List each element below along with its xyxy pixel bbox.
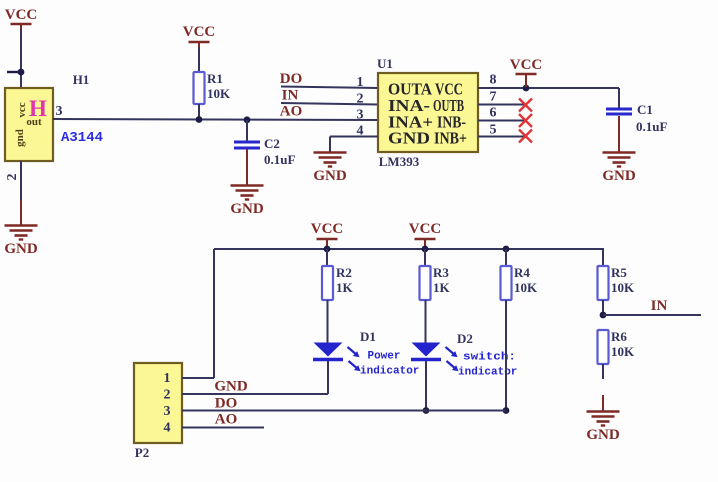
svg-text:indicator: indicator	[360, 366, 419, 378]
svg-text:LM393: LM393	[379, 154, 420, 169]
svg-text:VCC: VCC	[311, 221, 344, 237]
svg-text:8: 8	[490, 73, 497, 88]
svg-text:3: 3	[164, 404, 171, 419]
svg-text:10K: 10K	[611, 280, 635, 295]
svg-text:10K: 10K	[611, 344, 635, 359]
svg-text:VCC: VCC	[510, 57, 543, 73]
svg-text:GND: GND	[214, 379, 248, 395]
svg-text:D2: D2	[457, 331, 473, 346]
svg-text:gnd: gnd	[14, 129, 26, 147]
svg-text:3: 3	[56, 104, 63, 119]
svg-text:10K: 10K	[207, 86, 231, 101]
svg-text:GND: GND	[602, 168, 636, 184]
svg-text:H: H	[29, 96, 47, 121]
svg-text:VCC: VCC	[409, 221, 442, 237]
svg-text:switch:: switch:	[463, 352, 516, 364]
svg-text:1K: 1K	[433, 280, 451, 295]
svg-text:GND: GND	[388, 129, 430, 148]
svg-text:R5: R5	[611, 265, 627, 280]
svg-text:2: 2	[357, 92, 364, 107]
svg-text:VCC: VCC	[5, 7, 38, 23]
svg-text:10K: 10K	[514, 280, 538, 295]
svg-text:IN: IN	[282, 88, 299, 104]
svg-text:IN: IN	[651, 298, 668, 314]
svg-text:2: 2	[5, 174, 20, 181]
svg-text:R4: R4	[514, 265, 530, 280]
svg-text:GND: GND	[4, 241, 38, 257]
svg-text:1: 1	[164, 371, 171, 386]
svg-text:R2: R2	[336, 265, 352, 280]
svg-text:DO: DO	[215, 396, 238, 412]
svg-text:A3144: A3144	[61, 130, 103, 146]
svg-text:U1: U1	[377, 56, 393, 71]
svg-text:C1: C1	[637, 102, 653, 117]
svg-text:AO: AO	[215, 412, 238, 428]
svg-text:GND: GND	[586, 427, 620, 443]
svg-text:R6: R6	[611, 329, 627, 344]
svg-text:H1: H1	[73, 72, 90, 87]
svg-text:7: 7	[490, 90, 497, 105]
svg-text:2: 2	[164, 388, 171, 403]
svg-text:DO: DO	[280, 71, 303, 87]
svg-text:GND: GND	[230, 201, 264, 217]
svg-text:Power: Power	[367, 351, 400, 363]
svg-text:D1: D1	[360, 329, 376, 344]
svg-text:1K: 1K	[336, 280, 354, 295]
svg-text:3: 3	[357, 108, 364, 123]
svg-text:R1: R1	[207, 71, 223, 86]
svg-text:INB+: INB+	[434, 129, 467, 148]
svg-text:GND: GND	[313, 168, 347, 184]
svg-text:P2: P2	[135, 445, 149, 460]
svg-text:0.1uF: 0.1uF	[636, 119, 667, 134]
svg-text:5: 5	[490, 123, 497, 138]
svg-text:R3: R3	[433, 265, 449, 280]
svg-text:4: 4	[164, 421, 171, 436]
svg-text:C2: C2	[264, 136, 280, 151]
svg-text:indicator: indicator	[458, 367, 517, 379]
svg-text:0.1uF: 0.1uF	[264, 152, 295, 167]
svg-text:AO: AO	[280, 104, 303, 120]
svg-text:VCC: VCC	[183, 24, 216, 40]
svg-text:6: 6	[490, 106, 497, 121]
svg-text:1: 1	[357, 75, 364, 90]
